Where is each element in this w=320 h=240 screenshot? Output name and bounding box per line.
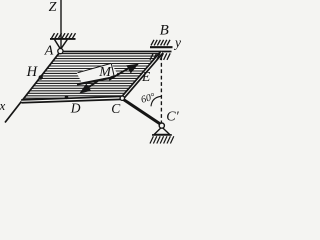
svg-text:y: y xyxy=(173,35,181,50)
svg-text:C: C xyxy=(111,101,121,116)
svg-text:Z: Z xyxy=(49,0,57,15)
svg-text:x: x xyxy=(0,98,6,113)
svg-text:A: A xyxy=(44,43,54,58)
svg-text:D: D xyxy=(70,101,81,116)
svg-text:B: B xyxy=(160,23,169,39)
svg-text:C′: C′ xyxy=(166,110,179,125)
svg-text:E: E xyxy=(141,69,151,84)
svg-text:H: H xyxy=(26,64,39,80)
svg-text:M: M xyxy=(98,65,112,80)
